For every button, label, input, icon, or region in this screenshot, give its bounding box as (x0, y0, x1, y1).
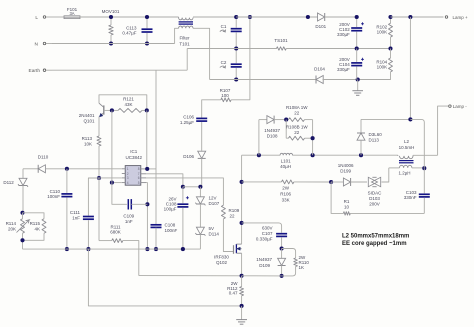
diode D110 (38, 155, 49, 173)
junction dot C110 top (65, 167, 69, 171)
wire startup feed from top rail (231, 17, 250, 100)
junction dot snubber right (311, 153, 315, 157)
svg-text:100K: 100K (377, 64, 388, 69)
svg-text:0.47: 0.47 (229, 290, 238, 295)
svg-text:R108A 1W: R108A 1W (286, 105, 308, 110)
zener diode D112 (3, 169, 28, 213)
filter transformer T101 core (179, 22, 193, 24)
resistor R109 22 (221, 205, 239, 219)
svg-text:0.330µF: 0.330µF (256, 236, 273, 241)
thermal cutout TS101 (274, 38, 288, 50)
wire source rail to D109 (242, 275, 282, 277)
junction dot C107 bottom (280, 246, 284, 250)
capacitor C103 330nF (404, 168, 430, 213)
wire base divider vertical (111, 110, 113, 182)
junction dot before D101 (306, 15, 310, 19)
wire D104 line left (210, 79, 316, 81)
svg-text:D106: D106 (183, 154, 194, 159)
svg-text:630V: 630V (262, 226, 273, 231)
wire L terminal to fuse (52, 16, 64, 18)
wire L rail C113 to T101 (147, 16, 179, 18)
svg-text:R108B 1W: R108B 1W (286, 124, 309, 129)
svg-text:3: 3 (127, 176, 129, 180)
wire lamp node jog to C103 (410, 119, 424, 167)
svg-text:C109: C109 (123, 213, 134, 218)
wire N rail up to T101 (175, 28, 179, 43)
wire mid power rail (242, 154, 398, 156)
inductor L101 40uH (280, 153, 292, 169)
svg-text:12V: 12V (209, 196, 217, 201)
svg-text:5: 5 (138, 181, 140, 185)
svg-text:C1: C1 (221, 24, 227, 29)
svg-text:20K: 20K (8, 227, 16, 232)
svg-text:1nF: 1nF (125, 219, 133, 224)
junction dot L-C113 (145, 15, 149, 19)
svg-text:100µF: 100µF (164, 207, 177, 212)
capacitor C108 100uF 26V (164, 187, 189, 249)
junction dot pin4 node (110, 181, 114, 185)
wire snubber riser left (259, 120, 267, 156)
svg-text:2: 2 (127, 172, 129, 176)
svg-text:TS101: TS101 (274, 38, 288, 43)
junction dot R106 rail left (240, 180, 244, 184)
resistor R111 680K (99, 224, 139, 275)
svg-text:6: 6 (138, 176, 140, 180)
svg-text:330nF: 330nF (404, 195, 417, 200)
svg-text:IRF830: IRF830 (214, 255, 229, 260)
junction dot D109 bottom (280, 274, 284, 278)
svg-text:R115: R115 (30, 221, 41, 226)
junction dot D106 bottom (198, 185, 202, 189)
wire emitter node down (98, 178, 100, 241)
junction dot R121 right (145, 108, 149, 112)
junction dot source rail (240, 274, 244, 278)
wire T101 bottom-right lead to D104 line (193, 28, 210, 79)
wire pin7 VCC (146, 174, 183, 187)
junction dot D199 node (329, 180, 333, 184)
svg-text:D103: D103 (369, 196, 380, 201)
resistor R121 43K (118, 97, 147, 113)
junction dot startup feed top (248, 15, 252, 19)
resistor R102 100K (376, 17, 392, 49)
resistor R106 33K 2W (280, 180, 331, 203)
wire R121 to VREF (146, 110, 148, 168)
wire lamp minus to L2 (438, 106, 449, 155)
ground symbol mains (352, 80, 363, 96)
svg-text:200V: 200V (369, 201, 380, 206)
svg-text:8: 8 (138, 167, 140, 171)
wire VCC node to zeners (183, 186, 201, 188)
junction dot C102 top (355, 15, 359, 19)
svg-text:N: N (35, 41, 39, 47)
svg-text:L: L (35, 15, 38, 21)
svg-text:Lamp -: Lamp - (453, 104, 468, 109)
svg-text:D199: D199 (340, 169, 351, 174)
wire R107 to C106 (202, 100, 221, 118)
junction dot Q101 base (110, 108, 114, 112)
svg-text:C110: C110 (50, 189, 61, 194)
note L2 core size (342, 233, 409, 247)
svg-text:1N4937: 1N4937 (256, 257, 272, 262)
wire R111 to source rail (139, 275, 242, 277)
node L (line input terminal) (35, 15, 52, 21)
wire mid rail right segment (286, 48, 390, 50)
capacitor C104 330uF 200V (337, 49, 364, 80)
svg-text:L2: L2 (404, 139, 410, 144)
op-amp IC1 UC3842 body (122, 149, 146, 185)
capacitor C113 0.47uF (122, 17, 152, 44)
junction dot D108 cathode (284, 118, 288, 122)
svg-text:0.47µF: 0.47µF (122, 30, 136, 35)
junction dot R115 bottom (20, 238, 24, 242)
junction dot R102-R104 mid (388, 46, 392, 50)
node Lamp minus terminal (449, 104, 468, 109)
zener diode D114 5V (195, 226, 219, 249)
wire snubber riser right (312, 120, 314, 156)
wire pin6 output (146, 178, 223, 205)
wire fuse to MOV junction (80, 16, 111, 18)
junction dot snubber left (257, 153, 261, 157)
junction dot C2 bottom (234, 77, 238, 81)
resistor R108B 1W 22 (286, 124, 313, 140)
svg-text:100K: 100K (377, 29, 388, 34)
svg-text:R106: R106 (280, 192, 291, 197)
svg-text:D3L60: D3L60 (369, 132, 383, 137)
junction dot L2 secondary right (422, 166, 426, 170)
wire top rail C1 to D101 (236, 16, 317, 18)
transformer L2 secondary 1.2uH (389, 165, 425, 175)
junction dot N-MOV (109, 41, 113, 45)
svg-text:10K: 10K (84, 141, 92, 146)
svg-text:D112: D112 (3, 180, 14, 185)
svg-text:UC3842: UC3842 (126, 155, 143, 160)
wire L rail MOV to C113 (111, 16, 147, 18)
wire D110 line (23, 168, 38, 170)
svg-text:680K: 680K (110, 230, 121, 235)
svg-text:4K: 4K (34, 227, 40, 232)
capacitor C1 1uF (220, 17, 242, 49)
svg-text:1: 1 (127, 167, 129, 171)
svg-text:100nF: 100nF (165, 228, 178, 233)
resistor R104 100K (376, 49, 392, 74)
junction dot C1-C2 midpoint (234, 46, 238, 50)
svg-text:Q102: Q102 (216, 260, 228, 265)
resistor R1 10 (331, 182, 424, 215)
capacitor C2 1uF (220, 49, 242, 80)
diode D113 D3L60 (357, 119, 382, 155)
junction dot C102-C104 mid (355, 46, 359, 50)
svg-text:330µF: 330µF (337, 67, 350, 72)
junction dot VCC node (181, 185, 185, 189)
svg-text:Lamp +: Lamp + (453, 15, 469, 20)
wire pin1 from D110 node (67, 168, 122, 170)
svg-text:1N4006: 1N4006 (338, 163, 354, 168)
svg-text:D110: D110 (38, 155, 49, 160)
svg-text:D109: D109 (259, 263, 270, 268)
svg-text:L2 50mmx57mmx18mm: L2 50mmx57mmx18mm (342, 233, 409, 239)
junction dot lamp node (408, 117, 412, 121)
wire T101 top to C1 (193, 16, 236, 18)
svg-text:1.2µH: 1.2µH (398, 170, 410, 175)
wire R109 to gate (223, 219, 233, 252)
wire control ground rail (23, 248, 201, 250)
wire R106 rail left (242, 181, 282, 183)
resistor R112 0.47 2W (227, 276, 244, 306)
svg-text:C2: C2 (221, 60, 227, 65)
junction dot C110 rail (65, 247, 69, 251)
wire pin4 down to C109 (112, 183, 127, 205)
wire N rail (52, 43, 175, 45)
wire drain to C107 (242, 223, 282, 233)
wire Q101 emitter chain (98, 117, 100, 137)
node Earth terminal (29, 68, 52, 74)
junction dot emitter node (97, 176, 101, 180)
wire emitter node to C111 (88, 178, 99, 216)
svg-text:330µF: 330µF (337, 32, 350, 37)
svg-text:R121: R121 (123, 97, 134, 102)
svg-text:Filter: Filter (180, 35, 191, 40)
capacitor C110 100nF (47, 169, 72, 249)
junction dot N-C113 (145, 41, 149, 45)
junction dot R108B right (311, 136, 315, 140)
wire pin4 from divider (112, 182, 122, 184)
svg-text:R111: R111 (110, 224, 121, 229)
wire Q101 collector loop (99, 95, 147, 111)
svg-text:1N4937: 1N4937 (264, 128, 280, 133)
wire source to rail (241, 253, 243, 276)
junction dot C111 rail (86, 247, 90, 251)
junction dot drain node (240, 221, 244, 225)
svg-text:100nF: 100nF (47, 194, 60, 199)
svg-text:T101: T101 (179, 41, 190, 46)
svg-text:MOV101: MOV101 (102, 9, 120, 14)
capacitor C111 1nF (70, 210, 94, 249)
diode D108 1N4937 (264, 116, 286, 139)
svg-text:1.25µF: 1.25µF (180, 120, 194, 125)
svg-text:IC1: IC1 (130, 149, 138, 154)
wire D104 to C104 bottom (323, 79, 358, 81)
node N (neutral input terminal) (35, 41, 52, 47)
resistor R107 100 (220, 88, 231, 102)
svg-text:D114: D114 (209, 232, 220, 237)
svg-text:Earth: Earth (29, 68, 41, 74)
ground symbol power (236, 306, 247, 324)
svg-text:40µH: 40µH (280, 164, 291, 169)
wire earth drop x156 (155, 70, 157, 224)
filter transformer T101 bottom winding (179, 26, 193, 28)
capacitor C106 1.25uF (180, 115, 207, 151)
svg-text:EE core gapped ~1mm: EE core gapped ~1mm (342, 241, 407, 247)
svg-text:D107: D107 (209, 201, 220, 206)
svg-text:R1: R1 (344, 199, 350, 204)
junction dot lamp plus branch (408, 15, 412, 19)
svg-text:R114: R114 (6, 221, 17, 226)
resistor R115 4K (23, 213, 47, 241)
svg-text:L101: L101 (281, 159, 292, 164)
resistor R110 1K 2W (282, 249, 310, 276)
transformer L2 core (399, 161, 414, 163)
svg-text:22: 22 (230, 213, 236, 218)
capacitor C108 100nF (151, 223, 178, 250)
svg-text:D108: D108 (267, 134, 278, 139)
svg-text:Q101: Q101 (83, 119, 95, 124)
capacitor C102 330uF 200V (337, 17, 364, 49)
junction dot power ground (240, 304, 244, 308)
diode D199 1N4006 (331, 163, 367, 186)
fuse F101 3A (64, 7, 80, 18)
svg-text:1nF: 1nF (72, 216, 80, 221)
wire D110 to C110 node (45, 168, 67, 170)
transformer L2 primary (398, 139, 438, 159)
diode D106 (183, 151, 205, 186)
svg-text:3A: 3A (69, 11, 74, 16)
svg-text:43K: 43K (124, 102, 132, 107)
svg-text:2N4401: 2N4401 (79, 113, 95, 118)
junction dot C109 right (145, 202, 149, 206)
sidac D103 200V (368, 177, 383, 206)
svg-text:C111: C111 (70, 210, 81, 215)
wire lamp plus vertical (409, 17, 411, 119)
transistor Q101 2N4401 (79, 103, 104, 123)
zener diode D107 12V (195, 187, 219, 227)
svg-text:C103: C103 (406, 190, 417, 195)
diode D104 (314, 67, 325, 84)
wire earth rail (52, 69, 187, 71)
wire pin8 VREF (146, 168, 156, 170)
node Lamp plus terminal (445, 15, 468, 20)
wire mid rail left segment (187, 48, 276, 50)
wire pin5 ground (146, 183, 147, 205)
svg-text:100: 100 (221, 93, 229, 98)
junction dot R114 top (20, 211, 24, 215)
svg-text:C107: C107 (262, 231, 273, 236)
wire D101 to C102 (325, 16, 357, 18)
svg-text:D104: D104 (314, 67, 325, 72)
wire C104 bottom to R104 bottom (358, 73, 391, 80)
svg-text:22: 22 (294, 130, 300, 135)
wire R108B branch (286, 120, 288, 139)
svg-text:22: 22 (294, 110, 300, 115)
svg-text:R109: R109 (229, 208, 240, 213)
junction dot C1 top (234, 15, 238, 19)
wire pin3 from emitter node (99, 177, 122, 179)
svg-text:5V: 5V (209, 226, 215, 231)
diode D101 (315, 13, 326, 29)
junction dot pin5 rail (145, 247, 149, 251)
transistor Q102 IRF830 (214, 244, 241, 265)
capacitor C107 0.33uF 630V (256, 226, 287, 249)
wire drain vertical (241, 155, 243, 244)
svg-text:R113: R113 (82, 136, 93, 141)
svg-text:SIDAC: SIDAC (368, 190, 383, 195)
svg-text:10.5mH: 10.5mH (399, 145, 415, 150)
svg-text:2W: 2W (282, 186, 290, 191)
junction dot R102 top (388, 15, 392, 19)
junction dot D113 rail (359, 153, 363, 157)
svg-text:D101: D101 (315, 24, 326, 29)
svg-text:4: 4 (127, 181, 129, 185)
junction dot C104 bottom (356, 77, 360, 81)
wire top rail to lamp plus (391, 16, 444, 18)
svg-text:33K: 33K (282, 198, 290, 203)
wire SIDAC to L2 secondary (382, 168, 389, 182)
trimmer R114 20K (6, 213, 30, 249)
wire pin5 to rail (146, 204, 148, 249)
diode D109 1N4937 (256, 249, 285, 276)
wire Q101 base to R121 (104, 109, 118, 111)
junction dot L-MOV (109, 15, 113, 19)
wire D113 to lamp node (361, 118, 410, 120)
svg-text:10: 10 (344, 204, 350, 209)
label Filter T101 (179, 35, 190, 46)
junction dot C108-el rail (181, 247, 185, 251)
svg-text:1K: 1K (299, 265, 305, 270)
wire earth branch riser (186, 49, 188, 71)
capacitor C109 1nF (123, 199, 147, 224)
svg-text:D113: D113 (369, 138, 380, 143)
wire rail to power ground (88, 249, 241, 306)
junction dot C108 rail (154, 247, 158, 251)
junction dot pin8 (145, 167, 149, 171)
filter transformer T101 top winding (179, 17, 193, 20)
resistor R113 10K (82, 136, 101, 178)
resistor R108A 1W 22 (286, 105, 313, 122)
varistor MOV101 (102, 9, 120, 44)
